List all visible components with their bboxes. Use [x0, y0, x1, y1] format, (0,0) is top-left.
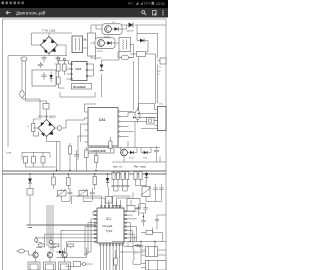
wire row link [29, 250, 65, 262]
trimmer RP1 [56, 189, 66, 202]
box with circle right [135, 118, 158, 125]
trimmer RP2 [78, 189, 88, 202]
transistor VT5 [33, 252, 38, 257]
wire bridge2 feeds [40, 120, 48, 121]
wire right cluster links [114, 186, 162, 202]
resistor R10 [121, 171, 124, 184]
wire DD1 feeds [139, 104, 155, 111]
wire vertical group to bottom [47, 205, 53, 252]
optocoupler U2 enclosure [95, 38, 115, 49]
svg-text:62%: 62% [144, 2, 151, 6]
capacitor C4 [32, 70, 56, 86]
wire bridge bottom [48, 54, 50, 56]
diode VD2 [137, 39, 148, 43]
resistor R1 [57, 61, 61, 76]
wire to DA1 zone [66, 118, 85, 128]
resistor R2 [63, 61, 67, 76]
capacitor C16 [121, 184, 125, 192]
wire VD2 column [137, 25, 158, 58]
capacitor C2 [54, 56, 61, 66]
cap right mid [141, 216, 145, 227]
long vertical wire pair mid-right [134, 57, 139, 110]
svg-text:С2: С2 [54, 64, 56, 66]
svg-text:VD3-VD6 КД202: VD3-VD6 КД202 [38, 116, 56, 119]
wire AC input top [32, 33, 73, 45]
svg-text:Т-ТН 1,2кВ: Т-ТН 1,2кВ [42, 29, 55, 33]
capacitor C10 [153, 184, 158, 195]
svg-text:VD10: VD10 [129, 158, 134, 160]
svg-text:зап. тл: зап. тл [113, 165, 122, 169]
fuse FU1 [43, 101, 49, 120]
schematic frame right border [165, 19, 167, 270]
diode VD11 [141, 151, 151, 160]
wire oval to snubber [118, 45, 134, 58]
wire right column lower [144, 213, 156, 248]
resistor Rb1 [33, 244, 45, 254]
wire zener drop to ground [29, 196, 31, 225]
resistor R15 [52, 174, 55, 189]
diode VD10 [127, 151, 137, 160]
svg-text:VD11: VD11 [143, 158, 147, 160]
wire right pin drops [130, 223, 136, 242]
small box bm1 [74, 262, 86, 267]
capacitor C12 [154, 146, 159, 157]
bus line lower [3, 173, 167, 175]
capacitor C5 [24, 157, 28, 168]
relay box RB2 [141, 261, 166, 270]
resistor R9 [93, 174, 97, 190]
node circle right of bridge2 [55, 126, 66, 131]
IC1 top pin wires [101, 196, 120, 205]
small box bottom-left of cluster [113, 202, 120, 216]
resistor Rb3 [62, 244, 73, 254]
wire VD9 down to bracket [101, 78, 103, 97]
resistor R6 [85, 147, 89, 171]
capacitor C3 [38, 62, 43, 68]
capacitor C1 [40, 56, 47, 66]
aux box right [159, 58, 166, 69]
capacitor C6 [32, 153, 36, 168]
app bar [0, 8, 168, 18]
resistor Rb2 [48, 244, 59, 254]
DA2 part label box [72, 84, 92, 90]
wire bridge left to AC drop [32, 44, 41, 46]
barrier box [88, 33, 96, 56]
oval fuse left [20, 91, 24, 98]
transistor VT1 [104, 22, 115, 39]
wire bottom mid rail [57, 248, 87, 258]
svg-text:КД202В: КД202В [127, 31, 135, 33]
oval fuse on left pair [21, 57, 27, 61]
IC1 top pin stubs [101, 205, 121, 208]
junction dots on bus [53, 173, 54, 174]
connector box X3 [59, 262, 71, 270]
resistor R18 [139, 171, 142, 186]
wire bridge2 bottom drop [47, 137, 61, 171]
bridge rectifier VD3-VD6 [38, 120, 55, 137]
DA1 right pin wires [120, 112, 135, 137]
wire bridge top [48, 33, 50, 37]
IC1 left pin stubs [94, 211, 97, 243]
DA1 left pin wires [78, 104, 96, 160]
svg-text:DA2: DA2 [76, 67, 82, 71]
svg-text:ATmega8: ATmega8 [102, 225, 113, 228]
IC1 bottom pin wires [100, 246, 122, 270]
transistor VT3 [121, 149, 128, 156]
controller DA1 [88, 108, 118, 147]
wire bridge right [58, 45, 67, 56]
svg-text:КТ815: КТ815 [97, 51, 104, 53]
wire DA2 left pins [67, 61, 71, 80]
svg-text:TQFP: TQFP [106, 230, 113, 233]
wire mid right stub [156, 54, 161, 104]
wire pot bottoms [62, 201, 93, 202]
resistor R5 [68, 143, 71, 171]
wire row under DA1 [112, 157, 166, 163]
capacitor C7 [41, 153, 45, 168]
diode VD1 [127, 23, 135, 33]
svg-text:Рег. тока: Рег. тока [134, 165, 146, 169]
wire bottom rail2 [66, 264, 93, 267]
snubber box [119, 38, 131, 52]
ground bar [27, 225, 97, 227]
wire opto1 entry [96, 25, 127, 29]
diode VD14 [106, 174, 110, 187]
small box right mid [141, 231, 163, 242]
wire left L-drop to bridge2 [22, 98, 47, 121]
bus line upper [3, 170, 167, 172]
zener box VD13 [27, 187, 33, 195]
node circles above R1 R2 [57, 58, 59, 60]
transistor VT7 [62, 252, 67, 257]
transistor VT2 [97, 40, 104, 53]
node circle b2 [50, 241, 53, 244]
capacitor C19 top-right [155, 215, 166, 230]
wire top rail to right border [135, 24, 166, 26]
connector box X1 [28, 262, 40, 270]
resistor R11 [126, 171, 129, 184]
svg-text:UC2825(3845): UC2825(3845) [89, 149, 106, 153]
capacitor C15 [116, 184, 120, 192]
voltage regulator DA2 [71, 62, 88, 81]
wire pair left column [22, 61, 26, 101]
wire left bottom stub [15, 213, 17, 214]
DA1 right pins [119, 111, 121, 138]
svg-text:НО: НО [128, 2, 133, 6]
resistor R17 [117, 172, 120, 184]
resistor R14 [109, 137, 112, 153]
diode VD7 [111, 27, 122, 30]
wire bracket under DA2 [60, 92, 95, 97]
diode VD12 [28, 174, 32, 187]
diode VD15 [56, 250, 66, 253]
IC1 right pin wires [127, 211, 137, 238]
oval component [118, 55, 132, 60]
svg-text:+5V: +5V [134, 244, 141, 248]
resistor R13 [134, 171, 137, 186]
wire lower-right mesh [115, 122, 160, 163]
resistor R7 [95, 151, 98, 169]
cap block top-right of IC [127, 200, 148, 216]
status bar [0, 0, 168, 8]
wire cap row bottom [26, 166, 56, 168]
schematic frame top border [3, 18, 167, 20]
wire DA2 right pins [88, 64, 94, 76]
diode VD16 [145, 171, 149, 182]
wire right top rail bottom [112, 242, 166, 247]
junction dots on rail [130, 241, 131, 242]
MCU IC1 [97, 208, 124, 243]
wire transistor row top [36, 236, 70, 252]
DA1 part label box [88, 148, 114, 154]
oval fuse bottom-left [16, 249, 29, 253]
capacitor C13 [139, 242, 144, 251]
transistor VT6 [47, 252, 52, 257]
schematic frame left border [2, 19, 4, 270]
resistor R3 [57, 75, 65, 88]
svg-text:Двигатель.pdf: Двигатель.pdf [16, 10, 46, 15]
capacitor C17 [125, 184, 129, 192]
wire transformer secondary to box [83, 40, 88, 48]
capacitor C14 [111, 184, 115, 192]
IC1 left pin wires nested [93, 211, 94, 215]
capacitor C11 [90, 188, 95, 201]
wire top rail right section [91, 24, 128, 26]
inner box mid-left [8, 56, 67, 148]
wire bottom-right verticals [120, 242, 146, 265]
trimmer RP3 [141, 182, 152, 201]
IC1 right pin stubs [124, 211, 127, 239]
capacitor C18 [159, 184, 164, 195]
crystal oval right of DA1 [135, 107, 140, 123]
connector box X2 [44, 262, 56, 270]
wire box up to top rail [90, 25, 92, 33]
DA1 bottom pins [92, 146, 112, 157]
svg-text:~220В: ~220В [5, 153, 12, 155]
transformer T1 [72, 36, 87, 53]
svg-text:DA1: DA1 [99, 118, 106, 122]
resistor R16 [112, 172, 115, 184]
diode VD9 [100, 60, 104, 78]
diode VD8 [104, 41, 115, 44]
optocoupler U1 enclosure [102, 24, 122, 35]
wire bridge2 left [33, 119, 39, 136]
resistor divider right of IC [114, 250, 117, 270]
wire R1 R2 tops [58, 60, 68, 62]
box small mid [106, 187, 113, 207]
wire VT2 collector up [91, 42, 120, 44]
svg-text:КР142ЕН8: КР142ЕН8 [73, 85, 86, 89]
svg-text:12:31: 12:31 [156, 2, 165, 6]
resistor R8 [67, 174, 71, 190]
svg-text:IC1: IC1 [106, 217, 111, 221]
IC1 bottom pin stubs [100, 243, 124, 246]
RC component right [130, 52, 156, 57]
bridge rectifier VD1-VD4 [41, 37, 58, 54]
IC DD1 right [133, 104, 166, 131]
resistor Rt left of bridge [27, 119, 35, 136]
wire box to VT2 area [91, 56, 102, 60]
box lower mid-right [127, 193, 146, 213]
bottom rail bracket mid-left [22, 153, 50, 160]
capacitor C8 [74, 150, 79, 171]
node circle b1 [35, 239, 38, 242]
relay box RB1 [141, 247, 166, 257]
capacitor C9 [68, 188, 73, 201]
DA1 left pins [85, 112, 89, 142]
wire VD9 top link [102, 52, 120, 61]
inductor L1 [133, 246, 139, 264]
